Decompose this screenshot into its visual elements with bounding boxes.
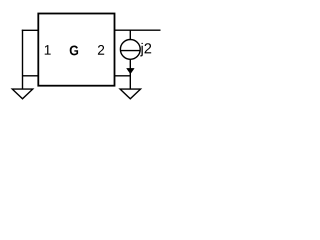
- port label 2: [98, 45, 104, 55]
- wire port1 top: [22, 29, 39, 31]
- wire port1 bottom: [23, 75, 39, 77]
- current source arrow: [127, 68, 135, 73]
- wire left vertical: [22, 30, 24, 89]
- wire source branch lower: [129, 59, 131, 89]
- wire port2 top: [114, 29, 160, 31]
- wire source branch upper: [129, 30, 131, 39]
- ground right: [120, 89, 140, 99]
- ground left: [12, 89, 32, 99]
- port label 1: [45, 45, 51, 54]
- label G: [70, 46, 78, 56]
- current source I1: [120, 40, 140, 60]
- two-port network box G: [38, 14, 114, 86]
- value label j2: [140, 43, 151, 57]
- wire junction to box: [114, 75, 130, 77]
